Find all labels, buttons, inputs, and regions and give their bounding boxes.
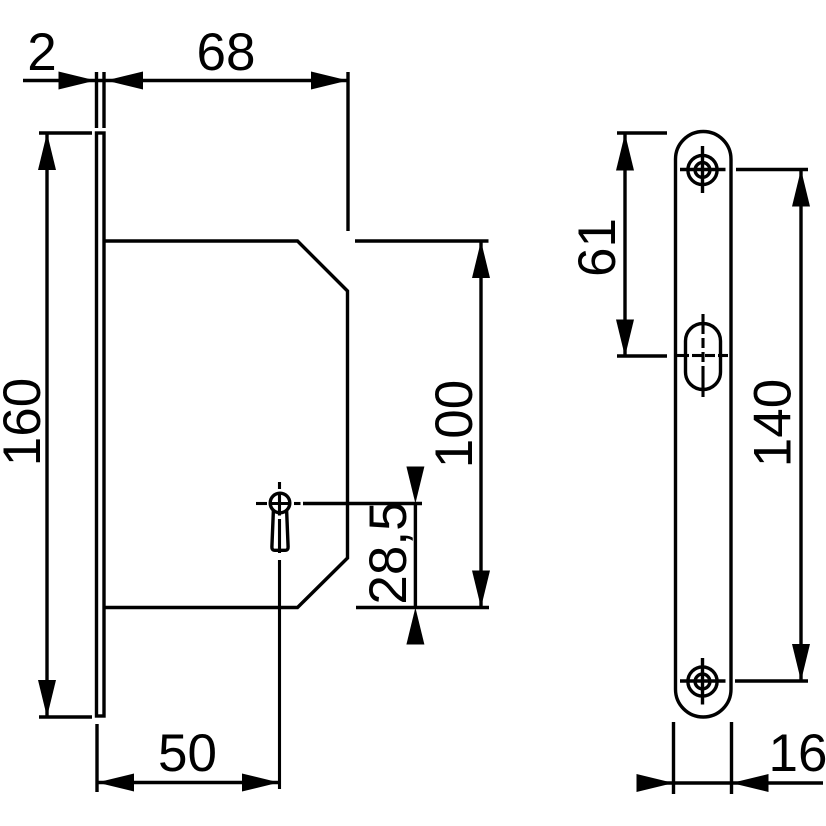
keyhole horizontal centerline [256,502,301,505]
bottom screw hole [680,658,726,705]
arrowhead dim 61 down [616,320,634,357]
arrowhead dim 160 down [38,680,56,717]
svg-text:140: 140 [744,379,803,467]
arrowhead dim 28,5 up (below) [406,608,424,645]
dimension 100 (case height): dim line + extension lines [355,241,489,608]
arrowhead dim 28,5 down (above) [406,467,424,504]
arrowhead dim 68 left-pointing [106,72,143,90]
dimension 61: dim line + extension lines [617,133,667,357]
arrowhead dim 16 pointing right at left plate edge [637,774,674,792]
dimension 28,5 (keyhole offset): dim line + extension line [303,504,422,608]
arrowhead dim 140 down [792,644,810,681]
svg-text:50: 50 [158,724,217,783]
dimension 50 (backset): dim line + extension line [97,724,279,792]
arrowhead dim 68 right-pointing [311,72,348,90]
dimension 68 (case depth): dimension line and extension line [346,72,349,231]
dimension 16 (faceplate width): dim line + extension lines [650,722,823,794]
arrowhead dim 140 up [792,170,810,207]
svg-text:160: 160 [0,378,52,466]
dimension 140: dim line + extension lines [735,170,808,682]
svg-text:61: 61 [568,218,627,277]
top screw hole [680,146,726,193]
lock case body outline [106,241,348,608]
svg-text:16: 16 [769,724,826,783]
svg-text:68: 68 [197,23,256,82]
oval slot (spindle hole) [686,324,721,390]
oval slot vertical centerline [701,314,704,397]
arrowhead dim 100 down [472,571,490,608]
arrowhead dim 160 up [38,133,56,170]
arrowhead dim 16 pointing left at right plate edge [732,774,769,792]
faceplate front view (right drawing) [676,132,732,718]
faceplate edge view (left drawing) [97,133,105,716]
arrowhead dim 50 right [242,774,279,792]
arrowhead dim 100 up [472,241,490,278]
arrowhead dim 2 right-pointing [59,72,96,90]
keyhole [270,493,290,550]
svg-text:28,5: 28,5 [359,501,418,604]
keyhole vertical centerline [278,482,281,789]
svg-text:2: 2 [27,23,56,82]
arrowhead dim 61 up [616,134,634,171]
oval slot horizontal centerline [677,354,728,357]
arrowhead dim 50 left [97,774,134,792]
dimension 2 (faceplate thickness): lines and extension lines [23,72,348,128]
svg-text:100: 100 [425,380,484,468]
dimension 160 (faceplate length): dim line + extension lines [39,133,92,717]
